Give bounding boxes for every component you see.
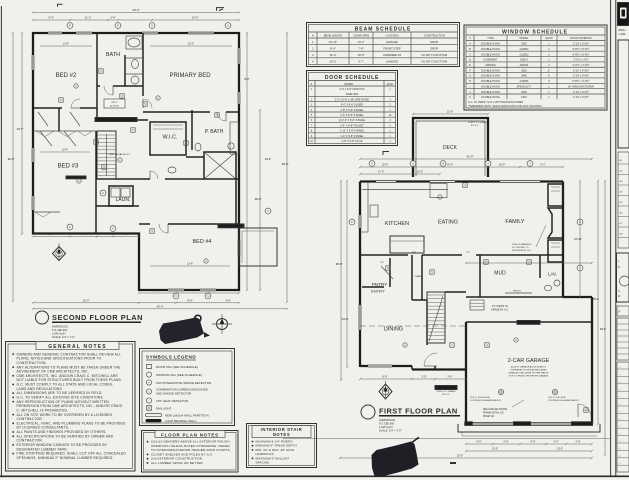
wall: primary bed south partition xyxy=(143,111,210,113)
svg-text:1,195 Sq.Ft.: 1,195 Sq.Ft. xyxy=(379,425,393,429)
svg-text:FLUSH TO BOTTOM: FLUSH TO BOTTOM xyxy=(421,53,448,57)
svg-text:2-CAR GARAGE: 2-CAR GARAGE xyxy=(508,358,550,364)
svg-text:1,543 Sq.Ft.: 1,543 Sq.Ft. xyxy=(52,332,66,336)
svg-text:7′-8″: 7′-8″ xyxy=(358,46,363,50)
svg-text:1′-4″ X 6′-8″ 6 PANEL: 1′-4″ X 6′-8″ 6 PANEL xyxy=(340,135,364,138)
attic access label xyxy=(104,99,125,108)
wall: central hall south wall xyxy=(97,178,150,180)
svg-text:D: D xyxy=(371,163,373,166)
svg-text:2′-10″ x 5′-5½″: 2′-10″ x 5′-5½″ xyxy=(573,42,589,46)
svg-text:C/O: C/O xyxy=(380,262,384,264)
svg-text:BED #4: BED #4 xyxy=(193,239,212,245)
svg-text:G: G xyxy=(487,163,489,166)
svg-text:BED #3: BED #3 xyxy=(58,164,79,170)
svg-text:DOUBLE HUNG: DOUBLE HUNG xyxy=(481,79,500,83)
pantry door diagonal xyxy=(381,266,393,279)
svg-text:STEPS TO GRADE: STEPS TO GRADE xyxy=(468,121,488,124)
svg-text:4′-6″: 4′-6″ xyxy=(225,298,230,302)
svg-text:3′-0″ x 6′-8″ FRONT W/: 3′-0″ x 6′-8″ FRONT W/ xyxy=(340,88,365,91)
svg-text:QUAN: QUAN xyxy=(387,83,394,86)
svg-text:10′-0″: 10′-0″ xyxy=(499,163,506,167)
wall: bath south partition xyxy=(97,85,100,87)
fixtures: p.bath tub xyxy=(230,122,239,154)
wall: entry/garage hall xyxy=(445,291,466,293)
smoke detectors second floor xyxy=(74,84,78,88)
svg-text:SYMBOLS LEGEND: SYMBOLS LEGEND xyxy=(146,355,196,360)
svg-text:8′-4″: 8′-4″ xyxy=(330,46,335,50)
sheet left border xyxy=(0,6,2,477)
fixtures: p.bath toilet xyxy=(195,143,201,151)
svg-text:D: D xyxy=(351,221,353,224)
svg-text:SPECIALITY: SPECIALITY xyxy=(517,84,532,88)
window tags top dim row xyxy=(67,23,73,29)
wall: p.bath south partition xyxy=(186,156,204,158)
svg-text:C: C xyxy=(469,52,471,56)
svg-text:AND SMOKE DETECTOR: AND SMOKE DETECTOR xyxy=(156,392,192,396)
svg-text:CONTINUOUS HEADER ABOVE: CONTINUOUS HEADER ABOVE xyxy=(470,399,501,402)
mud bench xyxy=(505,292,532,294)
svg-text:G: G xyxy=(69,226,71,229)
svg-text:19′-2″: 19′-2″ xyxy=(255,197,262,201)
wall: bath east partition xyxy=(124,55,126,86)
garage door jamb piers xyxy=(465,422,473,426)
window tag left xyxy=(100,190,106,196)
closet W.I.C. xyxy=(150,122,186,155)
svg-text:42′-0″: 42′-0″ xyxy=(466,155,473,159)
svg-text:BENCH: BENCH xyxy=(513,291,521,293)
svg-text:SCALE: 1/4″ = 1′-0″: SCALE: 1/4″ = 1′-0″ xyxy=(52,335,75,339)
svg-text:MODEL: MODEL xyxy=(345,83,355,86)
svg-text:1′-10″ x 3′-5½″: 1′-10″ x 3′-5½″ xyxy=(573,95,589,99)
svg-text:2′-0″: 2′-0″ xyxy=(554,441,559,444)
notes box: FLOOR PLAN NOTES xyxy=(142,431,239,473)
window tags first floor top dim row xyxy=(369,161,375,167)
door arc: primary bed xyxy=(217,112,226,121)
svg-text:SPACING: SPACING xyxy=(256,461,271,465)
svg-text:OPEN 2x6 RAIL BY G.C.: OPEN 2x6 RAIL BY G.C. xyxy=(108,153,131,156)
wall: mud-lav to garage step xyxy=(563,296,592,298)
small mark bottom center xyxy=(450,462,456,464)
svg-text:FLOOR PLAN NOTES: FLOOR PLAN NOTES xyxy=(161,432,219,437)
svg-text:G: G xyxy=(412,163,414,166)
legend item door tag xyxy=(147,365,152,369)
svg-text:SHEET A8: SHEET A8 xyxy=(483,415,495,418)
door tags second floor xyxy=(99,69,103,73)
notes box: GENERAL NOTES xyxy=(6,342,136,472)
svg-text:(2) 4′-0″ (2)2x10 HDR: (2) 4′-0″ (2)2x10 HDR xyxy=(470,397,490,399)
svg-text:GYP. TO ENVELOPE ENTIRE GARAGE: GYP. TO ENVELOPE ENTIRE GARAGE xyxy=(509,375,549,378)
title: FIRST FLOOR PLAN xyxy=(361,405,460,433)
header bar bed4 xyxy=(218,224,244,228)
svg-text:20/46 CLEARANCE: 20/46 CLEARANCE xyxy=(512,243,532,246)
svg-text:8′-0″: 8′-0″ xyxy=(477,441,482,444)
dim: first floor left verticals xyxy=(340,181,342,380)
svg-text:17′-0″: 17′-0″ xyxy=(378,171,384,174)
svg-text:24′-2″: 24′-2″ xyxy=(358,40,365,44)
title block tall box xyxy=(618,40,629,148)
svg-text:ALL LUMBER SPF#2 OR BETTER: ALL LUMBER SPF#2 OR BETTER xyxy=(151,461,204,465)
svg-text:SIDELITES: SIDELITES xyxy=(346,93,359,96)
svg-text:135° HEAT DETECTOR: 135° HEAT DETECTOR xyxy=(156,399,189,403)
svg-text:OVERHEAD DOORS AS REQUIRED: OVERHEAD DOORS AS REQUIRED xyxy=(510,369,547,372)
svg-text:DECK: DECK xyxy=(443,145,458,151)
legend item load bearing wall xyxy=(146,419,162,422)
svg-text:• CME: • CME xyxy=(618,32,626,36)
svg-text:19′-2″: 19′-2″ xyxy=(593,298,599,301)
fixtures: bath tub xyxy=(126,36,142,49)
svg-text:12′-4″: 12′-4″ xyxy=(62,149,68,152)
svg-text:8′-0″: 8′-0″ xyxy=(382,375,387,379)
wall: garage south wall with door openings xyxy=(466,423,592,425)
north compass first floor xyxy=(379,381,392,399)
svg-text:LOCATION: LOCATION xyxy=(385,34,398,38)
wall: garage west wall xyxy=(465,322,467,424)
title block strip divider xyxy=(615,0,617,476)
svg-text:MUD: MUD xyxy=(494,271,506,277)
svg-text:9′-2 CEILING: 9′-2 CEILING xyxy=(379,422,394,426)
interior dim bed2 xyxy=(40,45,92,47)
dim: first floor right verticals xyxy=(579,181,581,297)
registration mark first floor xyxy=(383,152,389,156)
svg-text:3′-6″: 3′-6″ xyxy=(447,375,452,379)
svg-text:WINDOW TAG (SEE SCHEDULE): WINDOW TAG (SEE SCHEDULE) xyxy=(156,373,202,377)
wall: mud room west xyxy=(479,255,481,297)
door arc: garage rear door xyxy=(578,404,591,417)
stairs first floor xyxy=(427,292,445,343)
svg-text:2′-0″ X 6′-8″ 1 HR. FIRE RATED: 2′-0″ X 6′-8″ 1 HR. FIRE RATED xyxy=(335,98,370,101)
door arc: hall to primary xyxy=(143,99,152,108)
svg-text:CONSTRUCTION: CONSTRUCTION xyxy=(424,34,445,38)
svg-text:BEAM LENGTH: BEAM LENGTH xyxy=(324,34,343,38)
attic storage box right of bed4 xyxy=(239,228,277,266)
svg-text:W.I.C.: W.I.C. xyxy=(163,135,178,141)
closet bed3 south xyxy=(33,211,60,213)
wall: family east wall xyxy=(562,182,564,298)
svg-text:2′-10″ x 3′-5½″: 2′-10″ x 3′-5½″ xyxy=(573,90,589,94)
fixtures: lav toilet and sink xyxy=(545,285,552,291)
svg-text:DOUBLE HUNG: DOUBLE HUNG xyxy=(481,95,500,99)
svg-text:F: F xyxy=(619,310,621,314)
svg-text:2′-6″: 2′-6″ xyxy=(110,16,115,20)
svg-text:(2) 4′-0″ 2x10 HDR: (2) 4′-0″ 2x10 HDR xyxy=(548,397,566,399)
dim: top segments xyxy=(33,19,239,21)
dim: bottom row 1 xyxy=(33,302,239,304)
svg-text:DOUBLE HUNG: DOUBLE HUNG xyxy=(481,68,500,72)
svg-text:BY MANUFACTURER: BY MANUFACTURER xyxy=(568,84,593,88)
svg-text:8′-0 CEILING: 8′-0 CEILING xyxy=(52,328,67,332)
svg-text:DOUBLE HUNG: DOUBLE HUNG xyxy=(481,84,500,88)
fixtures: bath toilet xyxy=(132,60,139,69)
svg-text:BY G.C.: BY G.C. xyxy=(471,125,479,127)
svg-text:SEE GARAGE PORTAL: SEE GARAGE PORTAL xyxy=(483,408,508,411)
wall: dining south wall xyxy=(360,365,412,367)
svg-text:CONTINUOUS HEADER ABOVE: CONTINUOUS HEADER ABOVE xyxy=(548,399,579,402)
svg-text:2832: 2832 xyxy=(521,90,527,94)
interior dim primary xyxy=(150,45,232,47)
svg-text:BATH: BATH xyxy=(106,52,120,58)
svg-text:2′-6″ X 6′-8″ 6 PANEL: 2′-6″ X 6′-8″ 6 PANEL xyxy=(340,114,364,117)
svg-text:2535-2: 2535-2 xyxy=(520,58,529,62)
fixtures: kitchen sink xyxy=(370,205,378,217)
notes box: INTERIOR STAIR NOTES xyxy=(247,424,317,468)
svg-text:TYPE: TYPE xyxy=(487,37,494,40)
wall: stair west / bed3 east partition xyxy=(95,131,97,234)
svg-text:2*: 2* xyxy=(548,68,550,72)
svg-text:NOTES: NOTES xyxy=(273,432,290,437)
dim: first floor top rows xyxy=(360,158,592,160)
table: WINDOW SCHEDULE xyxy=(464,25,607,110)
dim: top overall 40-0 xyxy=(33,12,239,14)
svg-text:GENERAL NOTES: GENERAL NOTES xyxy=(48,344,107,350)
svg-text:P. BATH: P. BATH xyxy=(205,129,224,135)
svg-text:HARDWOOD: HARDWOOD xyxy=(52,325,68,329)
svg-text:FAN LIGHT: FAN LIGHT xyxy=(156,407,172,411)
svg-text:9′-1″: 9′-1″ xyxy=(540,163,545,167)
svg-text:2832: 2832 xyxy=(521,68,527,72)
wall: pantry xyxy=(389,258,391,287)
wall: bed2 / hall partition xyxy=(96,33,98,120)
long horizontal dimension line lower area xyxy=(283,438,610,440)
title block logo black box xyxy=(618,3,629,26)
svg-text:2′-0″: 2′-0″ xyxy=(504,441,509,444)
wall: first floor west wall xyxy=(359,182,361,368)
dim: left verticals xyxy=(12,33,14,301)
wall: hall/dining east xyxy=(426,300,428,345)
svg-text:ROUGH OPENING: ROUGH OPENING xyxy=(570,37,592,40)
wall: bed2 south partition xyxy=(33,107,62,109)
svg-text:12′-0″: 12′-0″ xyxy=(83,298,90,302)
svg-text:NEW 2x6/2x4 WALL PARTITION: NEW 2x6/2x4 WALL PARTITION xyxy=(165,414,209,418)
svg-text:CLEAR SPAN: CLEAR SPAN xyxy=(353,34,369,38)
wall: hall south of laundry xyxy=(96,205,139,207)
svg-text:6′-0″ X 6′-8″ SLIDER: 6′-0″ X 6′-8″ SLIDER xyxy=(341,104,363,107)
closet door leaves bed2 south xyxy=(38,112,48,126)
svg-text:MODEL: MODEL xyxy=(520,37,530,40)
legend box: SYMBOLS LEGEND xyxy=(140,349,235,426)
svg-text:DOUBLE HUNG: DOUBLE HUNG xyxy=(481,90,500,94)
svg-text:E: E xyxy=(469,63,471,67)
svg-text:10′-0″: 10′-0″ xyxy=(417,171,423,174)
wall: mud/lav south xyxy=(466,296,563,298)
svg-text:13′-4″: 13′-4″ xyxy=(63,43,69,46)
kitchen counters xyxy=(362,189,448,191)
stairs second floor xyxy=(97,131,116,179)
svg-text:2′-5½″ x 3′-5″: 2′-5½″ x 3′-5″ xyxy=(574,58,589,62)
wall: first floor north wall xyxy=(360,180,563,182)
svg-text:BED #2: BED #2 xyxy=(56,73,77,79)
svg-text:2′-8″ X 6′-8″ 9-LITE: 2′-8″ X 6′-8″ 9-LITE xyxy=(342,140,363,143)
title block revision boxes xyxy=(617,306,629,316)
legend item wall partition xyxy=(146,414,162,417)
table: DOOR SCHEDULE xyxy=(307,71,398,146)
black redaction blob 2 (bottom, over border) xyxy=(372,437,420,477)
dim: below dining xyxy=(360,378,466,380)
svg-text:EXTERIOR BY G.C.: EXTERIOR BY G.C. xyxy=(512,250,532,252)
dim: below bed4 xyxy=(139,292,239,294)
svg-text:(2) 2′-0″ X 6′-8″ 6 PANEL: (2) 2′-0″ X 6′-8″ 6 PANEL xyxy=(339,119,366,122)
deck outline xyxy=(413,118,488,177)
svg-text:FRONT STEP: FRONT STEP xyxy=(383,46,401,50)
closet divider bed2 south xyxy=(58,108,60,131)
wall: bed4 bottom window gaps xyxy=(168,289,184,291)
svg-text:GARAGE: GARAGE xyxy=(386,40,398,44)
black redaction blob 1 (over second floor title area) xyxy=(159,315,210,344)
svg-text:40′-0″: 40′-0″ xyxy=(132,8,140,12)
svg-text:13′-0″: 13′-0″ xyxy=(192,16,199,20)
svg-text:7′-6″: 7′-6″ xyxy=(154,289,159,293)
door leaves into bed3 xyxy=(40,131,52,146)
fireplace family xyxy=(548,208,563,238)
svg-text:WINDOW SCHEDULE: WINDOW SCHEDULE xyxy=(502,30,568,36)
svg-text:13′-7″: 13′-7″ xyxy=(17,127,24,131)
wall: rear hall south wall xyxy=(412,368,466,370)
dim: bottom row 2 overall xyxy=(33,308,287,310)
svg-text:2′-0½″ x 2′-0½″: 2′-0½″ x 2′-0½″ xyxy=(572,63,589,67)
svg-text:DROP: DROP xyxy=(430,40,438,44)
svg-text:5′-8½″ x 4′-9½″: 5′-8½″ x 4′-9½″ xyxy=(572,79,589,83)
svg-text:13′-0″: 13′-0″ xyxy=(557,448,563,451)
dim: below bottom-left wall xyxy=(33,236,139,238)
wall: second floor outer outline xyxy=(33,33,239,290)
table: BEAM SCHEDULE xyxy=(307,23,460,67)
svg-text:KITCHEN: KITCHEN xyxy=(385,221,409,227)
svg-text:LOAD BEARING WALL: LOAD BEARING WALL xyxy=(165,419,197,423)
svg-text:25′-0″: 25′-0″ xyxy=(457,455,463,458)
dim: deck top xyxy=(413,113,488,115)
svg-text:9′-4″: 9′-4″ xyxy=(48,16,53,20)
wall: p.bath west partition xyxy=(191,110,193,150)
small steps rect garage xyxy=(470,300,484,310)
laundry room xyxy=(109,186,133,206)
svg-text:8′-0″: 8′-0″ xyxy=(81,232,86,236)
svg-text:12′-0″: 12′-0″ xyxy=(447,111,453,114)
svg-text:6′-0″: 6′-0″ xyxy=(123,232,128,236)
header bar hall xyxy=(95,118,137,122)
svg-text:DINING: DINING xyxy=(384,327,403,333)
header bar garage xyxy=(517,321,540,325)
svg-text:33′-2″: 33′-2″ xyxy=(600,328,606,331)
door arc: bath xyxy=(104,86,113,95)
svg-text:AWNING: AWNING xyxy=(485,63,495,67)
built-in shelves family north xyxy=(548,184,563,206)
svg-text:1832: 1832 xyxy=(521,95,527,99)
legend item fan light xyxy=(147,406,152,411)
title: SECOND FLOOR PLAN xyxy=(36,311,144,339)
svg-text:H: H xyxy=(175,295,177,298)
svg-text:2′-10″ x 4′-9½″: 2′-10″ x 4′-9½″ xyxy=(573,74,589,78)
svg-text:C/O: C/O xyxy=(466,252,470,254)
svg-text:CASEMENT: CASEMENT xyxy=(483,58,498,62)
wall: closet column right of hall xyxy=(235,179,237,224)
svg-text:OPENINGS, MINIMUM 2″ NOMINAL L: OPENINGS, MINIMUM 2″ NOMINAL LUMBER REQU… xyxy=(17,456,114,460)
svg-text:C: C xyxy=(529,163,531,166)
svg-text:3′-6″: 3′-6″ xyxy=(576,441,581,444)
svg-text:SECOND FLOOR PLAN: SECOND FLOOR PLAN xyxy=(52,313,143,322)
svg-text:8′-0″: 8′-0″ xyxy=(245,78,250,81)
svg-text:K: K xyxy=(469,95,471,99)
window tag left col xyxy=(349,219,355,225)
svg-text:PNTRY: PNTRY xyxy=(372,282,387,287)
svg-text:20′-4″: 20′-4″ xyxy=(330,53,337,57)
door tags first floor xyxy=(386,266,390,270)
wall: kitchen/family south wall xyxy=(360,254,408,256)
interior dim bed3 xyxy=(40,151,90,153)
registration mark top middle xyxy=(217,8,225,11)
garage center dashed line xyxy=(360,325,466,327)
svg-text:PRIMARY BED: PRIMARY BED xyxy=(169,73,211,79)
title block stamp circle xyxy=(617,253,629,302)
svg-text:11′-2″: 11′-2″ xyxy=(85,16,92,20)
svg-text:*TEMPERED UNITS. SEE FLOOR PLA: *TEMPERED UNITS. SEE FLOOR PLANS FOR UNI… xyxy=(468,105,542,108)
fixtures: bath sink xyxy=(131,76,139,84)
svg-text:(2)2852: (2)2852 xyxy=(520,52,529,56)
svg-text:G: G xyxy=(227,25,229,28)
coats closet walls xyxy=(411,255,413,300)
svg-text:8′-0″: 8′-0″ xyxy=(187,298,192,302)
dim: right verticals xyxy=(246,33,248,290)
svg-text:G: G xyxy=(151,25,153,28)
svg-text:FIRST FLOOR PLAN: FIRST FLOOR PLAN xyxy=(379,407,458,416)
legend item heat detector xyxy=(146,398,151,403)
window tags bottom second floor xyxy=(67,224,73,230)
svg-text:G.C. TO VERIFY R.O.′s WITH MAN: G.C. TO VERIFY R.O.′s WITH MANUFACTURER xyxy=(468,101,523,104)
smoke detectors first floor xyxy=(514,338,518,342)
svg-text:10′-0″: 10′-0″ xyxy=(382,163,389,167)
svg-text:2′-6″ X 6′-8″ POCKET: 2′-6″ X 6′-8″ POCKET xyxy=(340,124,364,127)
svg-text:LAUN.: LAUN. xyxy=(116,197,131,203)
garage door openings xyxy=(472,423,514,425)
svg-text:24′-10″: 24′-10″ xyxy=(329,40,338,44)
compass diamond lower-left second floor xyxy=(53,244,66,261)
legend item carbon monoxide xyxy=(146,389,151,394)
svg-text:5′-8½″ x 5′-5½″: 5′-8½″ x 5′-5½″ xyxy=(572,52,589,56)
dim: mud row xyxy=(466,262,592,264)
svg-text:QUAN: QUAN xyxy=(545,37,552,40)
svg-text:40′-0″: 40′-0″ xyxy=(282,162,289,166)
header bar bed3 xyxy=(66,176,86,179)
svg-text:DOOR TAG (SEE SCHEDULE): DOOR TAG (SEE SCHEDULE) xyxy=(156,365,198,369)
garage column circles xyxy=(498,389,503,394)
chimney chase box with X xyxy=(204,152,236,179)
svg-text:13′-0″: 13′-0″ xyxy=(492,448,498,451)
svg-text:A: A xyxy=(469,42,471,46)
svg-text:15′-0″: 15′-0″ xyxy=(447,163,454,167)
fixtures: p.bath sink xyxy=(228,143,234,149)
svg-text:DROP: DROP xyxy=(430,46,438,50)
wall: hall header south xyxy=(97,119,148,121)
wall: garage north interior line with header xyxy=(466,321,592,323)
svg-text:2′-8″ X 6′-8″ 6 PANEL: 2′-8″ X 6′-8″ 6 PANEL xyxy=(340,109,364,112)
wall: window gaps left wall xyxy=(32,55,34,70)
svg-text:DOOR SCHEDULE: DOOR SCHEDULE xyxy=(325,75,379,81)
svg-text:DOUBLE HUNG: DOUBLE HUNG xyxy=(481,74,500,78)
svg-text:ENTRY: ENTRY xyxy=(371,289,385,294)
door arc: hall closet xyxy=(150,171,158,179)
wall: lav west xyxy=(539,255,541,278)
interior dim bed4 xyxy=(150,265,230,267)
header bar rear steps xyxy=(435,386,457,390)
svg-text:36′-0″: 36′-0″ xyxy=(336,262,343,266)
svg-text:FLUSH TO BOTTOM: FLUSH TO BOTTOM xyxy=(421,60,448,64)
svg-text:GRADE BY G.C.: GRADE BY G.C. xyxy=(491,309,509,312)
svg-text:G: G xyxy=(207,295,209,298)
wall: window gaps right wall xyxy=(238,48,240,64)
svg-text:H: H xyxy=(469,79,471,83)
svg-text:MINIMUM ONE LAYER OF FIRE RATE: MINIMUM ONE LAYER OF FIRE RATED xyxy=(509,372,549,375)
svg-text:ARCH: ARCH xyxy=(618,28,625,32)
svg-text:2′-10″ x 4′-5½″: 2′-10″ x 4′-5½″ xyxy=(573,68,589,72)
svg-text:6′-0″: 6′-0″ xyxy=(47,232,52,236)
